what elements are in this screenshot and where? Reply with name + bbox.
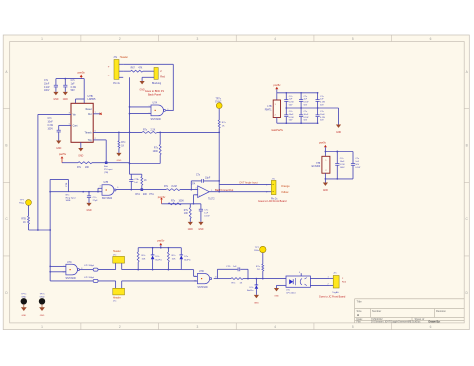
svg-text:4: 4 — [274, 37, 276, 41]
svg-text:0.1W: 0.1W — [289, 102, 294, 104]
svg-text:0.1W: 0.1W — [71, 87, 77, 89]
svg-text:10nF: 10nF — [320, 114, 325, 116]
svg-text:10K: 10K — [172, 259, 176, 261]
svg-text:50V: 50V — [304, 120, 308, 122]
svg-text:TL072: TL072 — [208, 199, 215, 201]
svg-text:10: 10 — [62, 271, 64, 273]
svg-text:27pF: 27pF — [93, 200, 99, 202]
svg-text:1: 1 — [41, 325, 43, 329]
svg-text:2: 2 — [95, 138, 96, 140]
svg-text:0.1W: 0.1W — [355, 167, 360, 169]
svg-text:U7C: U7C — [67, 261, 72, 264]
svg-text:3: 3 — [167, 109, 168, 111]
svg-text:TP7x: TP7x — [21, 294, 27, 296]
svg-text:C7B: C7B — [66, 182, 68, 187]
svg-text:1K: 1K — [144, 180, 147, 182]
svg-text:1K: 1K — [23, 222, 26, 224]
svg-text:Blocking: Blocking — [152, 82, 162, 85]
svg-text:7: 7 — [95, 112, 96, 114]
svg-text:1K: 1K — [121, 145, 124, 147]
svg-text:6: 6 — [95, 131, 96, 133]
svg-text:Title: Title — [357, 300, 363, 304]
svg-text:U7D: U7D — [199, 270, 204, 273]
svg-text:5: 5 — [352, 325, 354, 329]
svg-text:GND: GND — [188, 229, 193, 231]
svg-text:GND: GND — [56, 148, 61, 150]
svg-text:B: B — [5, 144, 7, 148]
svg-text:U7B: U7B — [104, 181, 109, 184]
svg-text:8: 8 — [81, 268, 82, 270]
svg-text:SN74S00: SN74S00 — [66, 277, 77, 280]
svg-text:2: 2 — [119, 37, 121, 41]
svg-text:10K: 10K — [184, 213, 189, 215]
svg-text:FB471: FB471 — [265, 110, 272, 112]
svg-text:R67: R67 — [131, 67, 136, 69]
svg-text:10nF: 10nF — [340, 161, 345, 163]
svg-text:0.1W: 0.1W — [304, 102, 309, 104]
svg-text:4: 4 — [274, 325, 276, 329]
svg-text:GND: GND — [78, 156, 83, 158]
svg-text:13: 13 — [194, 280, 196, 282]
svg-text:5: 5 — [352, 37, 354, 41]
svg-text:PV Input: PV Input — [104, 168, 113, 171]
svg-text:Header: Header — [113, 297, 121, 300]
svg-text:Pin 4x: Pin 4x — [113, 82, 120, 85]
svg-text:Red: Red — [160, 76, 165, 79]
svg-text:0.1W: 0.1W — [340, 164, 345, 166]
svg-text:Header: Header — [113, 250, 121, 253]
svg-text:2: 2 — [196, 187, 197, 189]
svg-text:TP7x: TP7x — [39, 294, 45, 296]
svg-text:mainPwr5v: mainPwr5v — [271, 129, 284, 132]
svg-text:47K: 47K — [138, 67, 143, 69]
svg-text:50V: 50V — [71, 90, 76, 92]
svg-text:10K: 10K — [142, 259, 146, 261]
svg-text:6: 6 — [430, 325, 432, 329]
svg-text:GND: GND — [323, 190, 328, 192]
svg-text:GND: GND — [63, 99, 68, 101]
svg-text:5: 5 — [100, 191, 101, 193]
svg-text:1: 1 — [148, 106, 149, 108]
svg-text:0.1W: 0.1W — [304, 117, 309, 119]
svg-text:8.2M: 8.2M — [172, 186, 177, 188]
svg-text:BatPin: BatPin — [156, 258, 163, 261]
svg-text:3: 3 — [196, 195, 197, 197]
svg-text:0.1W: 0.1W — [289, 117, 294, 119]
svg-text:DVT Angle Input: DVT Angle Input — [240, 182, 258, 185]
svg-text:10nF: 10nF — [48, 122, 54, 124]
svg-text:9: 9 — [64, 266, 65, 268]
svg-text:20K: 20K — [85, 167, 90, 169]
svg-text:pwr5v: pwr5v — [78, 71, 86, 75]
svg-text:L7B: L7B — [267, 106, 272, 108]
svg-text:1uF: 1uF — [204, 213, 208, 215]
svg-text:GND: GND — [21, 315, 26, 317]
svg-text:GND: GND — [86, 210, 91, 212]
svg-text:pwr5v: pwr5v — [274, 83, 282, 87]
svg-text:3: 3 — [197, 325, 199, 329]
svg-text:Y7B: Y7B — [316, 163, 321, 165]
svg-text:File:: File: — [357, 321, 362, 324]
svg-text:2.2K: 2.2K — [151, 129, 156, 131]
svg-text:Drawn By:: Drawn By: — [429, 321, 441, 324]
svg-text:SN74S00: SN74S00 — [151, 118, 162, 121]
svg-text:0.1W: 0.1W — [44, 87, 50, 89]
svg-text:100V: 100V — [340, 167, 345, 169]
svg-text:ECS300: ECS300 — [312, 166, 321, 168]
svg-text:Goes to LCD Front Board: Goes to LCD Front Board — [258, 200, 287, 203]
svg-text:6: 6 — [430, 37, 432, 41]
svg-text:50V: 50V — [289, 105, 293, 107]
svg-text:pwr5v: pwr5v — [59, 152, 67, 156]
svg-text:U7A: U7A — [153, 101, 158, 104]
svg-text:10nF: 10nF — [44, 83, 50, 85]
svg-text:1uF: 1uF — [71, 83, 76, 85]
svg-text:GND: GND — [53, 99, 58, 101]
svg-text:0.1W: 0.1W — [320, 102, 325, 104]
svg-text:Ring Input: Ring Input — [66, 196, 76, 199]
svg-text:D:\Giovanni..\DVTGoggleOversee: D:\Giovanni..\DVTGoggleOverseerMB.SchDoc — [371, 321, 421, 324]
svg-text:100V: 100V — [44, 90, 50, 92]
svg-text:12: 12 — [194, 276, 196, 278]
svg-text:GND: GND — [336, 132, 341, 134]
svg-text:Header: Header — [120, 56, 128, 59]
svg-text:100K: 100K — [179, 200, 185, 202]
svg-text:pwr5v: pwr5v — [319, 141, 327, 145]
svg-text:10nF: 10nF — [289, 114, 294, 116]
svg-text:GND: GND — [117, 160, 122, 162]
svg-text:LM555: LM555 — [88, 97, 96, 101]
svg-text:50V: 50V — [320, 120, 324, 122]
svg-text:GND: GND — [40, 315, 45, 317]
svg-text:C7A: C7A — [134, 178, 139, 181]
svg-text:pwr5v: pwr5v — [157, 239, 165, 243]
svg-text:SMB: SMB — [66, 200, 71, 202]
svg-text:BatTrimmerOut: BatTrimmerOut — [215, 188, 234, 192]
svg-text:3: 3 — [197, 37, 199, 41]
svg-text:Yellow: Yellow — [281, 190, 289, 194]
svg-text:1: 1 — [211, 190, 212, 192]
svg-text:Reset: Reset — [86, 108, 92, 111]
svg-text:+: + — [108, 65, 110, 69]
svg-text:Back Panel: Back Panel — [148, 93, 162, 97]
svg-text:100K: 100K — [153, 151, 159, 153]
svg-text:1uF: 1uF — [134, 182, 138, 184]
svg-text:4: 4 — [100, 186, 101, 188]
svg-text:Revision: Revision — [436, 309, 447, 313]
svg-text:GND: GND — [198, 229, 203, 231]
svg-text:GND: GND — [274, 296, 279, 298]
svg-text:6: 6 — [117, 187, 118, 189]
svg-text:TrigAlt: TrigAlt — [332, 291, 339, 294]
svg-text:10pF: 10pF — [205, 177, 211, 179]
svg-text:C7D: C7D — [226, 266, 231, 268]
svg-text:SN74S00: SN74S00 — [102, 197, 113, 200]
svg-text:BatPin: BatPin — [184, 258, 191, 261]
svg-text:BatPin: BatPin — [247, 289, 254, 292]
svg-text:20K: 20K — [143, 194, 148, 196]
svg-text:50V: 50V — [320, 105, 324, 107]
svg-text:2: 2 — [119, 325, 121, 329]
svg-text:0.1W: 0.1W — [320, 117, 325, 119]
svg-text:5: 5 — [69, 124, 70, 126]
svg-text:Cont: Cont — [73, 125, 78, 128]
svg-text:TP7x: TP7x — [216, 98, 222, 100]
svg-text:50V: 50V — [289, 120, 293, 122]
svg-text:11: 11 — [215, 277, 217, 279]
svg-text:Batt: Batt — [104, 165, 108, 168]
svg-text:B: B — [466, 144, 468, 148]
svg-text:Thresh: Thresh — [84, 132, 92, 135]
svg-text:50V: 50V — [355, 164, 359, 166]
svg-text:GND: GND — [254, 302, 259, 304]
svg-text:L7F 1Mgd: L7F 1Mgd — [84, 265, 95, 267]
svg-text:R7B: R7B — [21, 218, 26, 220]
svg-text:1: 1 — [41, 37, 43, 41]
svg-text:R7A: R7A — [135, 193, 140, 196]
svg-text:P7A: P7A — [149, 193, 154, 196]
svg-text:50V: 50V — [304, 105, 308, 107]
svg-text:2: 2 — [148, 113, 149, 115]
svg-text:100V: 100V — [48, 129, 54, 131]
svg-text:−: − — [108, 74, 110, 78]
svg-text:SN74S00: SN74S00 — [197, 286, 208, 289]
svg-text:(7B): (7B) — [104, 172, 108, 174]
svg-text:0.1W: 0.1W — [48, 125, 54, 127]
svg-text:CPC1014: CPC1014 — [286, 292, 296, 294]
svg-text:Number: Number — [372, 309, 381, 313]
svg-text:10nF: 10nF — [304, 114, 309, 116]
svg-text:Out: Out — [88, 113, 92, 116]
svg-text:Orange: Orange — [281, 184, 290, 188]
svg-text:8: 8 — [69, 113, 70, 115]
svg-text:1uF: 1uF — [233, 266, 237, 268]
svg-text:Ring: Ring — [19, 202, 24, 204]
svg-text:Goes to JC Front Board: Goes to JC Front Board — [319, 295, 346, 298]
svg-text:L7F 1Mgd: L7F 1Mgd — [84, 277, 95, 279]
